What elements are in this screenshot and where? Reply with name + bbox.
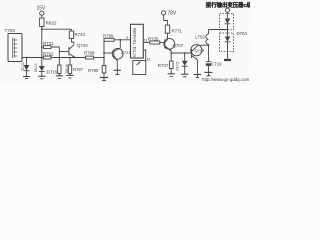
node (119, 39, 121, 41)
svg-text:D711: D711 (21, 63, 25, 71)
dashed box D704 lower (220, 33, 234, 52)
wire R771 to Q707 collector (167, 33, 169, 40)
svg-text:R787: R787 (73, 67, 84, 72)
svg-text:R735: R735 (148, 36, 159, 41)
svg-text:R822: R822 (46, 21, 57, 26)
svg-text:R788: R788 (84, 51, 95, 56)
wire connector to bus (22, 57, 44, 59)
diode D712 (24, 65, 30, 76)
resistor R721 (44, 46, 52, 49)
svg-text:78V: 78V (167, 11, 177, 17)
resistor R735 (150, 41, 160, 44)
resistor R822 (40, 18, 44, 27)
wire L702 top to diode node (209, 29, 228, 31)
svg-text:Q721: Q721 (121, 50, 132, 55)
svg-text:Q709: Q709 (195, 48, 206, 53)
bus to node (94, 57, 105, 59)
small box below IC (133, 61, 146, 75)
bus wire (51, 57, 86, 59)
svg-text:11: 11 (147, 57, 151, 61)
terminal to flyback (225, 8, 229, 12)
svg-text:D715: D715 (47, 70, 58, 75)
svg-text:R721: R721 (43, 41, 54, 46)
svg-text:Q720: Q720 (77, 43, 88, 48)
wire (41, 27, 43, 30)
wire rail to R743 (71, 29, 73, 31)
output bar (224, 59, 231, 61)
diode D716 (181, 52, 188, 77)
emitter node dot (74, 57, 76, 59)
collector wire to R743 (72, 39, 74, 45)
diode D704a (225, 19, 231, 30)
resistor R771 (165, 25, 169, 33)
wire (41, 15, 43, 18)
wire R789 to IC pin5 (114, 39, 131, 41)
capacitor C719 (electrolytic) (205, 45, 213, 76)
node (208, 44, 210, 46)
svg-text:D704: D704 (237, 31, 248, 36)
svg-text:R790: R790 (88, 68, 99, 73)
wire IC right pin down to small box (143, 50, 145, 61)
svg-text:R771: R771 (172, 29, 183, 34)
ground (D712) (23, 77, 30, 79)
transistor Q720 (69, 45, 75, 58)
svg-text:接行输出变压器c组: 接行输出变压器c组 (206, 1, 250, 9)
diode D715 (38, 66, 45, 79)
15V rail (42, 28, 72, 30)
node line x104 (103, 41, 105, 65)
connector T703 (8, 34, 22, 62)
base wire Q721 (104, 52, 114, 54)
resistor R743 (69, 31, 73, 39)
svg-text:T703: T703 (5, 28, 16, 33)
node (170, 52, 172, 54)
node (41, 28, 43, 30)
resistor R790 (100, 58, 108, 81)
svg-text:15V: 15V (37, 6, 47, 12)
node (103, 52, 105, 54)
node (227, 29, 229, 31)
svg-text:R743: R743 (75, 32, 86, 37)
diode D704b (225, 30, 231, 59)
capacitor C706 (vertical, below bus) (56, 58, 63, 79)
base wire Q720 (59, 51, 69, 53)
svg-text:R762: R762 (43, 52, 54, 57)
wire R721 to elbow (51, 47, 59, 58)
svg-text:http://www.go-gddq.com: http://www.go-gddq.com (202, 77, 249, 82)
node (103, 57, 105, 59)
svg-text:C719: C719 (211, 61, 222, 66)
collector wire to L702 (198, 44, 209, 46)
ground Q709 (194, 75, 202, 78)
svg-text:Q707: Q707 (173, 43, 184, 48)
resistor R789 (104, 38, 114, 41)
svg-text:L702: L702 (195, 35, 205, 40)
svg-text:R737: R737 (158, 63, 169, 68)
pin 11 wire to R735 (143, 42, 150, 44)
node (41, 57, 43, 59)
svg-text:R789: R789 (103, 34, 114, 39)
IC701 TDA4866 (131, 24, 144, 58)
node (41, 46, 43, 48)
transistor Q707 (164, 38, 175, 51)
svg-text:C736: C736 (34, 64, 38, 73)
resistor R707 (vertical below bus) (67, 58, 74, 79)
svg-text:D716: D716 (175, 62, 179, 71)
collector drop Q721 (119, 40, 121, 48)
dashed box D704 upper (220, 14, 234, 30)
resistor R788 (86, 56, 94, 59)
left vertical line (41, 29, 43, 66)
svg-text:IC701 TDA4866: IC701 TDA4866 (132, 27, 137, 57)
transistor Q721 (112, 48, 123, 70)
78V terminal (162, 11, 166, 15)
resistor R762 (44, 56, 52, 59)
wire to Q707 base (160, 42, 165, 44)
ground Q721 (114, 70, 121, 74)
wire down to D712 (26, 58, 28, 66)
emitter node wire (171, 51, 191, 53)
wire 78V to R771 (163, 15, 165, 21)
resistor R737 (168, 53, 175, 76)
transistor Q709 (191, 45, 202, 75)
node dot left (26, 57, 28, 59)
inductor L702 (206, 30, 209, 45)
svg-text:5: 5 (126, 36, 128, 40)
